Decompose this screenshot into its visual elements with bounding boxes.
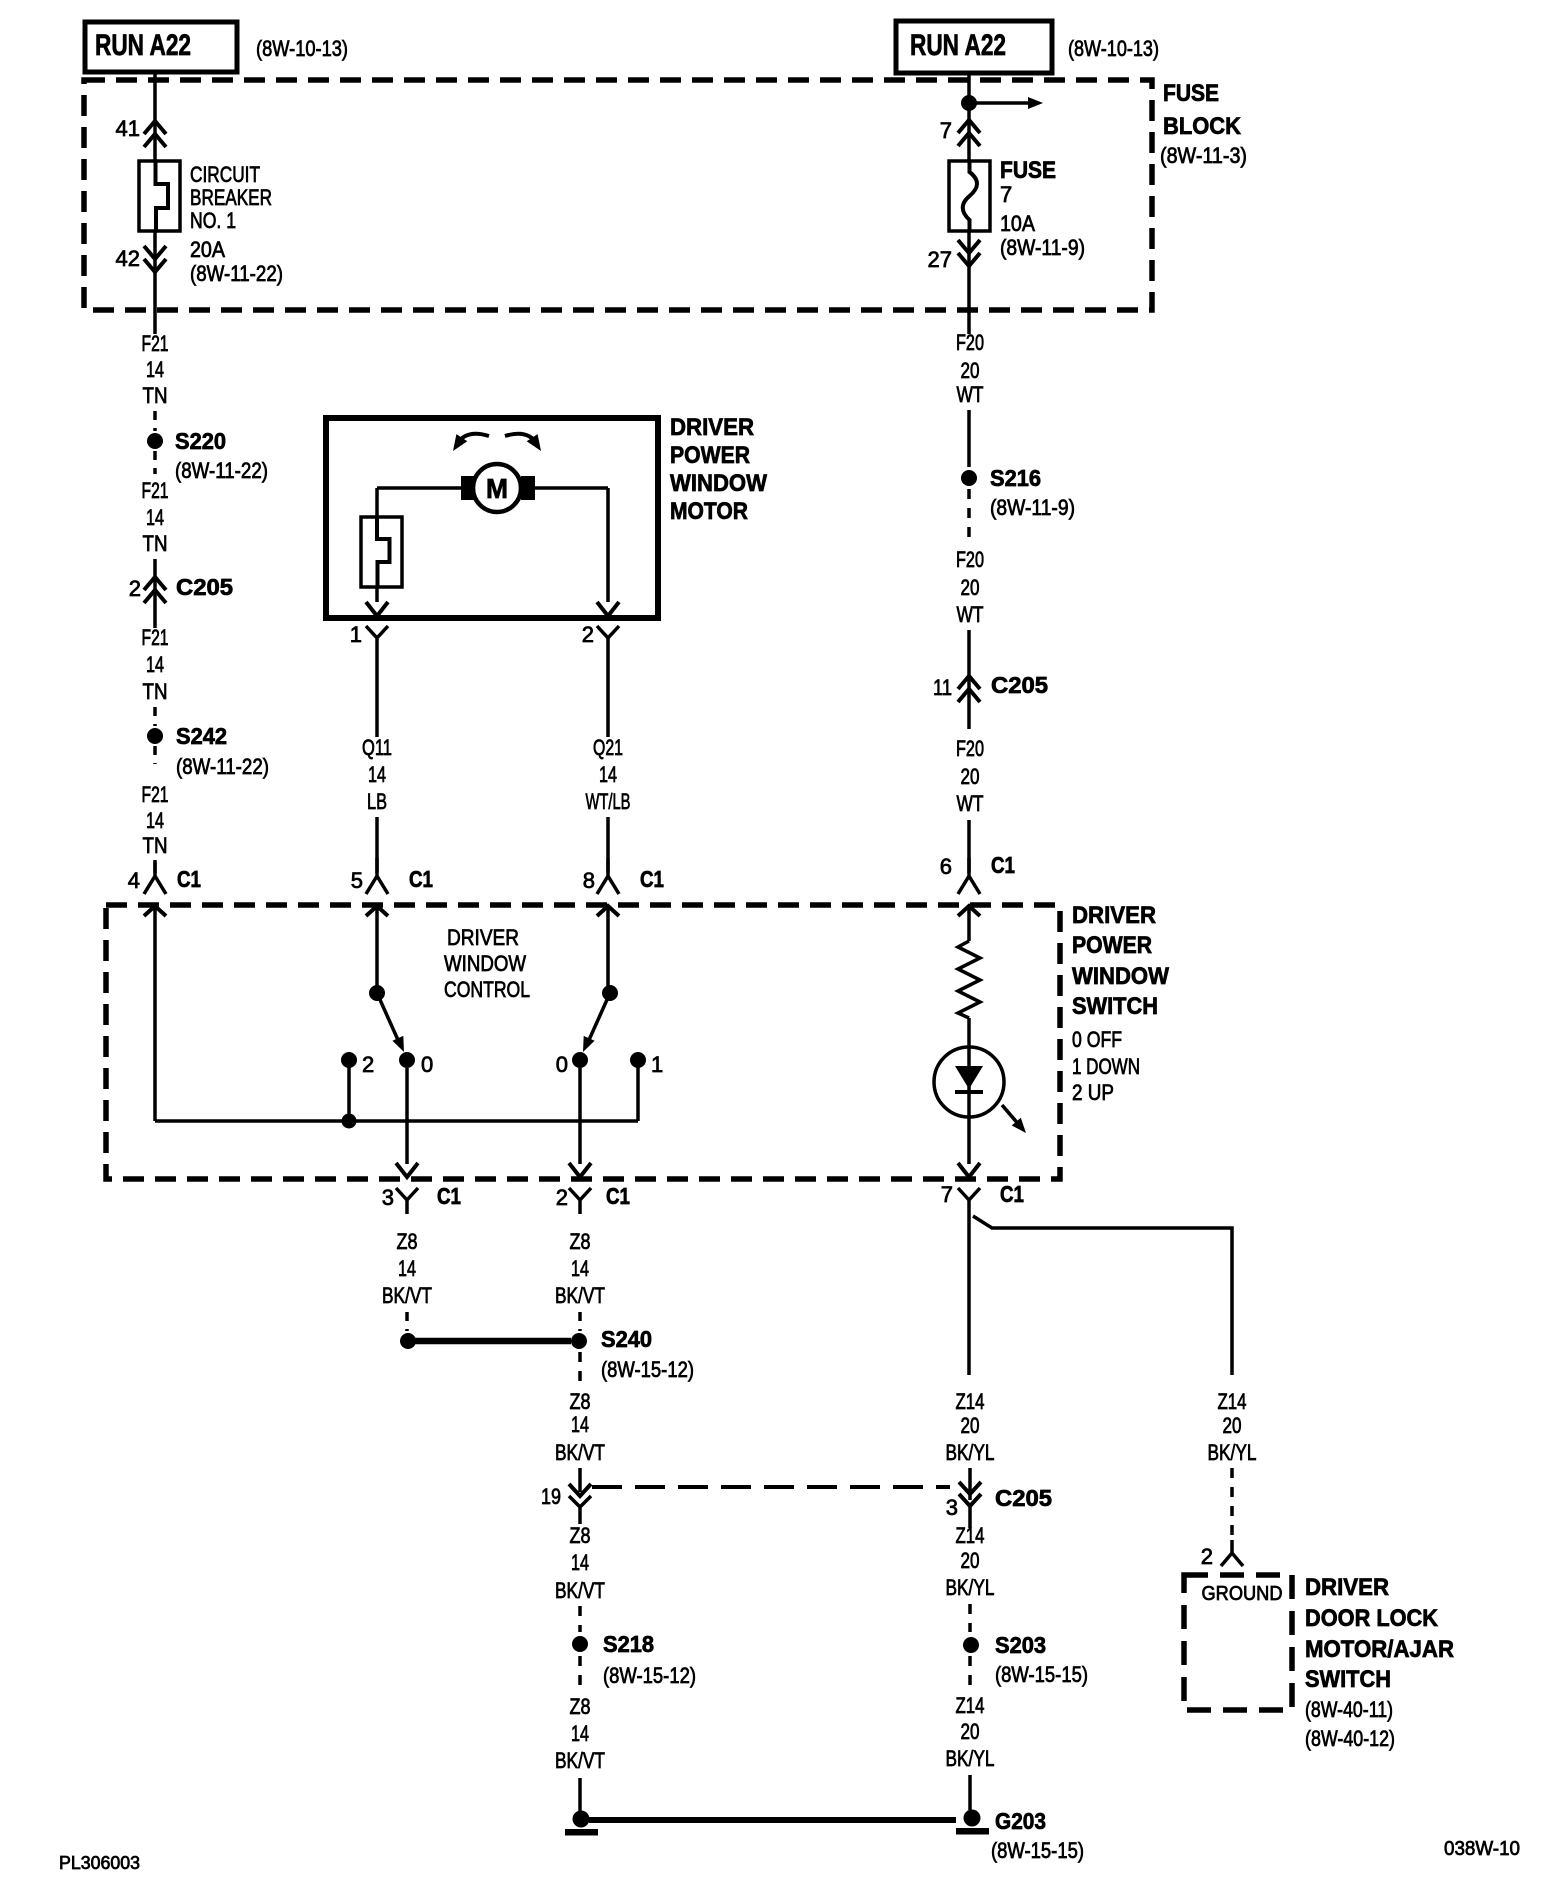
wire dashed below S220 [153,451,157,474]
wire resistor to lamp [967,1018,971,1048]
svg-text:4: 4 [128,868,140,893]
wire to connector C205 [153,559,157,628]
svg-text:WT: WT [957,602,984,627]
net label RUN A22 (left) [85,22,237,72]
contact 0 right [572,1052,588,1068]
svg-text:(8W-11-3): (8W-11-3) [1160,143,1247,168]
svg-text:3: 3 [946,1495,958,1520]
svg-text:F20: F20 [956,547,984,572]
svg-text:(8W-11-22): (8W-11-22) [176,754,269,779]
svg-text:1: 1 [651,1052,663,1077]
splice link wire [415,1338,571,1345]
wire dashed above S240 [578,1312,582,1331]
branch wire to door lock [973,1216,1232,1375]
wire to connector C1 pin 6 [967,820,971,873]
svg-text:C1: C1 [437,1183,461,1209]
svg-text:C1: C1 [606,1183,630,1209]
svg-text:10A: 10A [1000,211,1035,236]
splice S218 [572,1636,588,1652]
svg-text:20: 20 [961,575,980,600]
svg-text:RUN A22: RUN A22 [910,29,1006,62]
svg-text:(8W-11-22): (8W-11-22) [190,261,283,286]
svg-text:C1: C1 [991,852,1015,878]
svg-text:DOOR LOCK: DOOR LOCK [1305,1605,1439,1632]
net label RUN A22 (right) [896,21,1052,73]
svg-text:TN: TN [143,383,168,408]
fuse F7 [949,161,990,231]
wire dashed below S216 [967,489,971,540]
svg-text:DRIVER: DRIVER [670,414,754,441]
svg-text:SWITCH: SWITCH [1305,1666,1391,1693]
wire to splice S216 [967,410,971,467]
wire contact 1 to bus [636,1066,640,1121]
svg-text:LB: LB [367,789,387,814]
svg-text:WINDOW: WINDOW [1072,963,1169,990]
wire RUN A22 to fuse [967,73,971,161]
splice S220 [147,433,163,449]
svg-text:S216: S216 [990,465,1041,491]
svg-text:F21: F21 [142,331,169,356]
splice S242 [147,728,163,744]
svg-text:BK/VT: BK/VT [382,1283,432,1308]
wire pin 7 down [967,1214,971,1375]
wire to connector C1 pin 4 [153,860,157,873]
splice S240 [571,1333,587,1349]
svg-text:BREAKER: BREAKER [190,185,272,210]
svg-text:BK/YL: BK/YL [1208,1440,1257,1465]
svg-text:CIRCUIT: CIRCUIT [190,162,260,187]
svg-text:WINDOW: WINDOW [444,951,526,976]
svg-text:S242: S242 [176,723,227,749]
svg-text:2 UP: 2 UP [1072,1080,1114,1105]
svg-text:BK/YL: BK/YL [946,1575,995,1600]
wire dashed to splice S203 [968,1604,972,1632]
svg-text:14: 14 [571,1721,589,1746]
svg-text:14: 14 [146,808,164,833]
svg-text:(8W-10-13): (8W-10-13) [256,36,348,61]
svg-text:Z8: Z8 [570,1523,591,1548]
wire dashed below S218 [578,1656,582,1692]
svg-text:FUSE: FUSE [1000,157,1056,184]
wire dashed to splice [405,1312,409,1331]
contact 0 left [399,1052,415,1068]
svg-text:F21: F21 [142,478,169,503]
svg-text:M: M [486,473,508,504]
pin 7 arrow out [958,1163,980,1177]
svg-text:S218: S218 [603,1631,654,1657]
svg-text:(8W-10-13): (8W-10-13) [1068,36,1159,61]
svg-text:SWITCH: SWITCH [1072,993,1158,1020]
wire to connector C205 pin 3 [968,1468,972,1500]
svg-text:C1: C1 [1000,1181,1024,1207]
rotation arrows [457,434,489,444]
svg-text:Z14: Z14 [956,1693,985,1718]
svg-text:6: 6 [940,854,952,879]
wire into switch box pin 8 [597,906,619,916]
svg-text:41: 41 [116,116,140,141]
svg-text:2: 2 [129,576,141,601]
svg-text:038W-10: 038W-10 [1444,1838,1520,1860]
svg-text:C1: C1 [640,866,664,892]
motor M1 [473,464,521,512]
contact 1 [630,1052,646,1068]
wire into switch box pin 5 [366,906,388,916]
wire breaker to pin 1 [375,587,379,602]
svg-text:20: 20 [961,358,980,383]
wire breaker to F21 [153,231,157,334]
svg-text:PL306003: PL306003 [59,1853,140,1873]
svg-text:C205: C205 [995,1485,1052,1511]
svg-text:20: 20 [961,1548,980,1573]
svg-text:Q21: Q21 [593,735,623,760]
svg-text:(8W-40-11): (8W-40-11) [1305,1697,1393,1722]
svg-text:20A: 20A [190,237,225,262]
switch lever left [377,993,398,1040]
svg-text:20: 20 [1223,1413,1242,1438]
svg-text:MOTOR/AJAR: MOTOR/AJAR [1305,1636,1454,1663]
splice S203 [963,1637,979,1653]
svg-text:20: 20 [961,1719,980,1744]
wire contact 0 right to pin 2 [578,1068,582,1164]
svg-text:14: 14 [146,357,164,382]
svg-text:5: 5 [351,868,363,893]
svg-text:BK/YL: BK/YL [946,1440,995,1465]
wire dashed to splice S242 [153,707,157,726]
svg-text:BK/VT: BK/VT [555,1578,605,1603]
junction node [961,95,977,111]
svg-text:14: 14 [368,762,386,787]
svg-text:MOTOR: MOTOR [670,498,748,525]
wire dashed below S242 [153,746,157,764]
svg-text:0: 0 [556,1052,568,1077]
circuit breaker CB1 [139,161,180,231]
svg-text:WINDOW: WINDOW [670,470,767,497]
wire dashed to door lock [1230,1468,1234,1542]
motor terminals [461,476,475,500]
svg-text:RUN A22: RUN A22 [95,29,191,62]
svg-text:DRIVER: DRIVER [447,925,519,950]
svg-text:14: 14 [571,1412,589,1437]
svg-text:S240: S240 [601,1326,652,1352]
svg-text:S203: S203 [995,1632,1046,1658]
svg-text:(8W-15-15): (8W-15-15) [995,1662,1088,1687]
wire Q11 [375,656,379,737]
svg-text:14: 14 [571,1256,589,1281]
svg-text:WT: WT [957,382,984,407]
svg-text:20: 20 [961,1413,980,1438]
feed arrow [969,101,1028,105]
wire dashed to splice S218 [578,1606,582,1632]
svg-text:GROUND: GROUND [1202,1583,1283,1605]
fuse block dashed outline [84,80,1152,310]
svg-text:C205: C205 [991,672,1048,698]
svg-text:0: 0 [421,1052,433,1077]
wire to connector C205 pin 11 [967,630,971,729]
bus wire [155,1119,638,1123]
ground splice left [573,1811,590,1828]
resistor [958,941,980,1018]
svg-text:BK/VT: BK/VT [555,1748,605,1773]
svg-text:19: 19 [541,1484,561,1509]
svg-text:42: 42 [116,246,140,271]
svg-text:14: 14 [146,652,164,677]
svg-text:C1: C1 [409,866,433,892]
svg-text:(8W-40-12): (8W-40-12) [1305,1726,1395,1751]
svg-text:2: 2 [362,1052,374,1077]
driver power window switch dashed outline [106,905,1060,1179]
svg-text:Z8: Z8 [570,1229,591,1254]
svg-text:(8W-15-12): (8W-15-12) [603,1663,696,1688]
svg-text:27: 27 [928,247,952,272]
svg-text:Z14: Z14 [956,1389,985,1414]
svg-text:14: 14 [599,762,617,787]
switch lever right [589,993,610,1040]
svg-text:(8W-15-12): (8W-15-12) [601,1357,694,1382]
svg-text:TN: TN [143,679,168,704]
svg-text:BK/VT: BK/VT [555,1283,605,1308]
svg-text:7: 7 [941,1182,953,1207]
svg-text:3: 3 [382,1185,394,1210]
svg-text:14: 14 [398,1256,416,1281]
svg-text:S220: S220 [175,428,226,454]
wire to connector C205 pin 19 [578,1468,582,1492]
svg-text:C1: C1 [177,866,201,892]
ground link wire [589,1817,956,1823]
svg-text:2: 2 [1201,1544,1213,1569]
svg-text:20: 20 [961,764,980,789]
svg-text:(8W-11-9): (8W-11-9) [1000,235,1085,260]
svg-text:TN: TN [143,531,168,556]
svg-text:Z8: Z8 [397,1229,418,1254]
wire contact 0 left to pin 3 [405,1068,409,1164]
wire to ground G203 [968,1775,972,1810]
wire fuse to F20 [967,231,971,334]
wire to C1 pin 5 [375,817,379,873]
svg-text:POWER: POWER [670,442,750,469]
wire motor to internal breaker [377,486,462,490]
svg-text:7: 7 [940,118,952,143]
splice S216 [961,470,977,486]
svg-text:POWER: POWER [1072,932,1152,959]
svg-text:1 DOWN: 1 DOWN [1072,1054,1140,1079]
svg-text:NO. 1: NO. 1 [190,208,236,233]
svg-text:CONTROL: CONTROL [444,977,530,1002]
wire motor to pin 2 [534,486,608,490]
svg-text:11: 11 [933,675,952,700]
diode symbol in lamp [955,1066,983,1089]
wire dashed below S240 [578,1352,582,1390]
wire into switch box pin 6 [958,906,980,916]
switch pivot right [602,985,618,1001]
svg-text:Q11: Q11 [362,735,392,760]
ground splice G203 [964,1810,981,1827]
internal circuit breaker [361,517,402,587]
svg-text:8: 8 [583,868,595,893]
svg-text:Z8: Z8 [570,1389,591,1414]
svg-text:BK/YL: BK/YL [946,1746,995,1771]
driver door lock dashed outline [1184,1575,1292,1710]
wire RUN A22 to circuit breaker [153,72,157,161]
svg-text:Z14: Z14 [956,1523,985,1548]
contact 2 [341,1052,357,1068]
svg-text:F21: F21 [142,625,169,650]
driver power window motor box [326,418,658,618]
svg-text:(8W-11-22): (8W-11-22) [175,458,268,483]
svg-text:14: 14 [146,505,164,530]
wire Q21 [606,656,610,737]
svg-text:(8W-11-9): (8W-11-9) [990,495,1075,520]
svg-text:Z8: Z8 [570,1694,591,1719]
svg-text:14: 14 [571,1550,589,1575]
wire into switch box pin 4 [144,906,166,916]
svg-text:TN: TN [143,833,168,858]
svg-text:FUSE: FUSE [1163,80,1219,107]
svg-text:BLOCK: BLOCK [1163,113,1242,140]
svg-text:(8W-15-15): (8W-15-15) [991,1838,1084,1863]
switch pivot left [369,985,385,1001]
wire dashed to splice S220 [153,411,157,431]
wire contact 2 to bus [347,1066,351,1121]
svg-text:2: 2 [556,1185,568,1210]
wire through lamp [967,1048,971,1164]
wire to C1 pin 8 [606,817,610,873]
svg-text:F21: F21 [142,782,169,807]
svg-text:1: 1 [350,622,362,647]
svg-text:DRIVER: DRIVER [1072,902,1156,929]
lamp arrow [1002,1105,1020,1126]
svg-text:F20: F20 [956,736,984,761]
svg-text:Z14: Z14 [1218,1389,1247,1414]
lamp / LED circle [934,1047,1004,1117]
splice dot left [400,1333,416,1349]
svg-text:WT: WT [957,791,984,816]
svg-text:BK/VT: BK/VT [555,1440,605,1465]
svg-text:G203: G203 [995,1808,1046,1834]
svg-text:0 OFF: 0 OFF [1072,1027,1122,1052]
svg-text:F20: F20 [956,330,984,355]
dashed connector line C205 [592,1485,950,1489]
wire to ground splice [578,1778,582,1814]
wire dashed below S203 [968,1656,972,1692]
svg-text:7: 7 [1000,182,1012,207]
svg-text:WT/LB: WT/LB [586,789,631,814]
bus junction [342,1114,357,1129]
svg-text:C205: C205 [176,574,233,600]
svg-text:2: 2 [582,622,594,647]
svg-text:DRIVER: DRIVER [1305,1574,1389,1601]
